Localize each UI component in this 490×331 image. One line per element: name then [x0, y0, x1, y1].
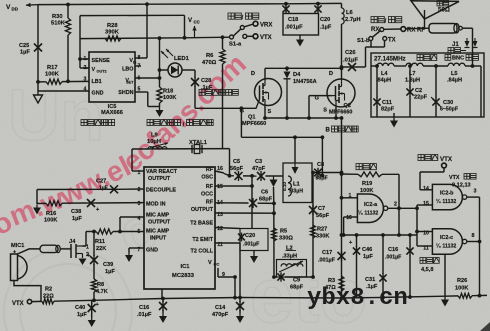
ground G5 — [33, 205, 41, 215]
resistor R5 — [272, 228, 294, 242]
IC1 pin3 — [138, 201, 141, 207]
faint watermark circles — [4, 248, 132, 331]
label low-voltage regulator (CJK) — [81, 120, 115, 126]
wire C26 to S1-b — [366, 41, 372, 67]
IC1 MIC AMP OUTPUT label — [146, 213, 171, 226]
IC5 pin2 label — [83, 65, 89, 71]
wire pin2 gnd drop — [36, 190, 38, 205]
wire Q2 source to ground bus — [340, 116, 344, 298]
wire TX drop — [371, 41, 385, 47]
wire to VRX — [244, 24, 252, 27]
ground G13 — [441, 297, 449, 307]
wire pin5 line — [86, 230, 144, 234]
IC1 T2 EMIT label — [192, 237, 213, 243]
node VTX terminal — [253, 34, 272, 41]
IC1 MOD IN label — [146, 202, 166, 208]
wire GND pin4 IC5 — [38, 82, 89, 92]
wire VIN drop (pin8 IC5) — [135, 4, 147, 58]
label Q1 refdes — [242, 115, 266, 128]
wire Q1 gate line — [195, 107, 247, 109]
capacitor C38 — [71, 199, 100, 222]
resistor R19 — [342, 172, 400, 194]
diode varactor — [270, 176, 278, 187]
resistor R16 — [44, 201, 62, 224]
wire varactor drop — [272, 187, 276, 279]
IC1 T2 BASE label — [190, 221, 213, 227]
inductor L9 — [147, 133, 168, 150]
label 27.145MHz filter (CJK) — [374, 55, 437, 63]
IC1 VAR REACT OUTPUT label — [146, 169, 178, 182]
wire IC5 pins1-2 tie — [78, 16, 89, 68]
wire gate ground — [444, 254, 446, 296]
wire IC2c out — [467, 241, 480, 243]
wire VDD to C25 branch — [37, 5, 39, 43]
wire pin15 stub — [417, 204, 432, 206]
IC1 RF OUTPUT label — [191, 200, 214, 214]
ground G7 (J4 pin2) — [79, 259, 87, 266]
wire L1 feed — [294, 137, 296, 163]
capacitor C25 — [19, 43, 42, 56]
inductor L7 — [405, 63, 423, 83]
capacitor C31 — [365, 235, 387, 297]
ground G8 — [88, 317, 96, 327]
capacitor C10 bypass — [385, 235, 414, 297]
IC1 GND label — [146, 248, 158, 254]
microphone MIC1 — [11, 243, 28, 281]
node VDD supply label — [6, 3, 38, 12]
IC1 RF OSC label — [201, 167, 213, 181]
IC5 pin1 label — [83, 56, 89, 62]
IC1 RF OCC label — [201, 184, 214, 198]
IC5 GND label — [92, 91, 104, 97]
inductor L6 — [342, 3, 361, 24]
label VTX pins — [449, 174, 476, 189]
wire VCC loop top — [80, 14, 185, 16]
wire J4 to pin5 — [83, 232, 87, 247]
zener D4 — [284, 68, 317, 118]
wire drain bus — [265, 66, 342, 70]
wire mic to cable — [18, 249, 41, 254]
label RX/TX switch (CJK) — [228, 13, 259, 22]
capacitor C26 — [342, 50, 366, 71]
resistor R2 — [42, 287, 55, 304]
capacitor C17 — [318, 250, 346, 264]
wire pin13 line — [215, 212, 274, 214]
resistor R3 — [325, 276, 344, 291]
wire IC2b out — [467, 197, 481, 296]
IC1 refdes — [172, 264, 195, 279]
IC5 LB1 label — [92, 79, 102, 85]
IC5 LBO label — [122, 67, 133, 73]
wire filter top bus — [371, 65, 481, 67]
IC5 pin8 label — [138, 55, 141, 61]
IC1 pin7 — [138, 247, 141, 253]
wire IC2a input bottom — [342, 217, 358, 237]
crystal XTAL1 — [189, 140, 208, 154]
antenna symbol — [411, 1, 459, 29]
ground G9 — [159, 313, 167, 323]
wire right tank drop — [321, 137, 325, 177]
capacitor C9 — [277, 272, 303, 290]
capacitor C46 electrolytic — [349, 235, 373, 298]
capacitor C7 — [309, 205, 330, 219]
wire to VTX — [247, 35, 253, 37]
wire VCC vertical — [184, 15, 186, 38]
wire pin2 line — [37, 188, 144, 191]
wire IC1 bottom gnd — [161, 289, 163, 298]
wire Q2 gate — [309, 96, 332, 119]
op-amp U IC1 MC2833 body — [144, 167, 215, 289]
node RX label — [371, 27, 379, 33]
wire pin15 line — [215, 184, 254, 188]
capacitor C20 — [314, 4, 331, 31]
wire J1 drop — [462, 28, 472, 53]
wire mic shield down — [14, 281, 41, 302]
capacitor C30 variable — [431, 64, 458, 117]
wire pin7 gnd — [129, 248, 144, 252]
wire pin14 line — [215, 202, 276, 206]
label FM modulator tripler (CJK) — [147, 120, 213, 129]
wire L5 right leg — [471, 53, 481, 117]
IC1 pin12 — [217, 226, 223, 232]
IC1 pin15 — [217, 184, 223, 190]
wire C28 to Q1 gate line — [194, 86, 196, 108]
scan corner mark — [480, 322, 490, 331]
wire pin3 line — [37, 202, 144, 205]
label ground pins (CJK) — [420, 258, 439, 274]
wire VCC line — [80, 35, 229, 40]
IC1 T2 COLL label — [191, 249, 214, 255]
resistor R18 — [157, 87, 176, 107]
ground G1 — [34, 92, 43, 103]
resistor R30 — [51, 5, 71, 84]
IC5 pin6 label — [138, 76, 141, 82]
IC5 SHDN label — [118, 90, 133, 96]
wire pin4 line — [118, 217, 144, 233]
wire SHDN to ground node — [135, 92, 160, 107]
IC5 refdes — [101, 104, 123, 116]
resistor R28 — [105, 23, 121, 41]
inductor L5 — [447, 63, 465, 83]
IC1 pin5 — [138, 229, 141, 235]
wire pin16 line — [215, 171, 283, 178]
switch S1-a — [229, 26, 247, 48]
capacitor C16 bypass — [137, 298, 167, 318]
resistor R17 — [45, 65, 62, 84]
wire pin11 stub — [417, 245, 432, 247]
label low-battery indicator (CJK) — [199, 90, 238, 96]
IC1 DECOUPLE label — [146, 188, 176, 194]
wire VDD top rail — [38, 2, 342, 7]
IC1 MIC AMP INPUT label — [146, 229, 170, 242]
nand gate IC2-b — [423, 184, 476, 209]
IC1 pin14 — [217, 200, 223, 206]
nand gate IC2-c — [423, 229, 474, 254]
wire VCC pin stub — [218, 268, 237, 298]
resistor R8 — [91, 279, 107, 300]
wire C25 to R17 node — [37, 52, 39, 82]
diode D6 at J1 — [473, 38, 478, 48]
IC5 VIN label — [129, 58, 137, 65]
capacitor C20 box — [238, 229, 268, 254]
IC1 pin2 — [138, 187, 141, 193]
wire osc bus x313 — [311, 171, 315, 277]
node RX RF terminal — [401, 27, 425, 34]
wire tank bus — [241, 135, 324, 139]
inductor L4 — [376, 63, 394, 83]
switch S1-b — [357, 28, 396, 45]
IC1 pin13 — [217, 212, 223, 218]
wire osc loop — [132, 149, 230, 176]
wire IC2 output node drop — [415, 205, 419, 246]
node VCC label — [188, 17, 201, 38]
capacitor C28 — [191, 77, 213, 91]
ground G4 — [390, 113, 398, 128]
capacitor C39 electrolytic — [87, 232, 115, 280]
IC5 VSET label — [125, 78, 134, 85]
resistor R6 — [202, 37, 225, 149]
red watermark text — [0, 48, 253, 242]
label J1 antenna BNC (CJK) — [445, 42, 479, 62]
ground G11 — [250, 253, 258, 263]
node VTX terminal bottom — [12, 299, 32, 307]
watermark ybx8.cn — [307, 285, 408, 312]
nand gate IC2-a — [346, 193, 397, 223]
wire Q1 drain — [251, 68, 265, 79]
wire pin12 line — [215, 228, 240, 229]
capacitor C5 — [230, 159, 244, 181]
IC1 pin4 — [138, 216, 141, 222]
connector J4 — [69, 239, 89, 258]
node VRX terminal — [253, 21, 272, 28]
IC1 pin16 — [217, 166, 223, 172]
capacitor C3 — [252, 159, 266, 181]
IC5 pin3 label — [84, 77, 87, 83]
diode D5 at J1 — [465, 38, 470, 48]
IC1 pin11 — [217, 242, 223, 248]
wire feedback bus — [342, 233, 418, 237]
label Q2 refdes — [329, 103, 352, 116]
capacitor C27 — [96, 179, 119, 194]
wire pin10 stub — [417, 231, 432, 233]
inductor L2 shielded — [277, 246, 307, 278]
wire VSET node — [135, 38, 161, 87]
transistor Q1 — [240, 79, 282, 116]
resistor R11 — [95, 229, 113, 252]
faint watermark letters — [8, 76, 367, 331]
wire C9/L2 bottom line — [274, 275, 315, 279]
IC5 VOUT2 label — [92, 67, 107, 74]
op-amp U IC5 MAX666 body — [89, 52, 135, 102]
wire IC2a input top — [340, 196, 358, 200]
wire source bus — [263, 105, 341, 120]
LED LED1 — [161, 49, 190, 77]
IC5 pin4 label — [84, 87, 87, 93]
wire C18/C20 box — [283, 14, 319, 37]
ground G2 — [156, 107, 164, 117]
label driver (CJK) — [356, 164, 376, 170]
ground G3 — [296, 37, 304, 47]
wire RX to RXRF — [384, 28, 401, 30]
resistor R26 — [455, 278, 472, 298]
capacitor C2 — [406, 64, 427, 117]
IC5 SENSE label — [92, 58, 111, 64]
wire RXRF to coax — [406, 27, 429, 30]
IC1 VCC pin label — [208, 260, 225, 278]
label class-B amplifier (CJK) — [326, 126, 359, 134]
wire L6 to Q2 drain — [340, 24, 344, 79]
inductor L1 shielded — [282, 163, 312, 203]
capacitor C14 — [212, 298, 244, 319]
resistor R27 — [311, 225, 330, 240]
wire C5-C3 node drop — [251, 176, 253, 228]
capacitor C6 — [249, 190, 273, 209]
wire IC2a out — [388, 206, 419, 210]
wire VTX to pin14 — [420, 168, 444, 190]
ground G6 — [125, 252, 133, 262]
transistor Q2 — [323, 71, 355, 114]
capacitor C18 — [282, 4, 303, 31]
coax connector J1 body — [429, 24, 462, 34]
filter box outline — [371, 53, 484, 117]
node VTX driver terminal — [418, 155, 453, 168]
capacitor C8 — [312, 162, 343, 182]
wire gate line to tank — [240, 106, 244, 137]
wire LED left — [160, 69, 169, 71]
wire LB1 line (pin3 IC5) — [36, 80, 89, 84]
IC5 pin7 label — [135, 64, 141, 70]
capacitor C40 electrolytic — [75, 300, 100, 318]
wire R19 right leg — [397, 174, 401, 237]
capacitor C11 — [373, 64, 394, 117]
IC5 pin5 label — [138, 87, 141, 93]
label antenna 50ohm — [437, 1, 450, 14]
ground G10 — [236, 313, 244, 323]
wire LED right to C28 — [182, 70, 195, 78]
wire pin11 to rail — [215, 243, 240, 298]
shielded cable — [40, 245, 60, 252]
wire ground rail — [32, 294, 487, 302]
label RX/TX switch 2 (CJK) — [371, 17, 402, 26]
IC1 pin1 — [138, 170, 141, 176]
wire cable to J4 — [60, 248, 71, 250]
